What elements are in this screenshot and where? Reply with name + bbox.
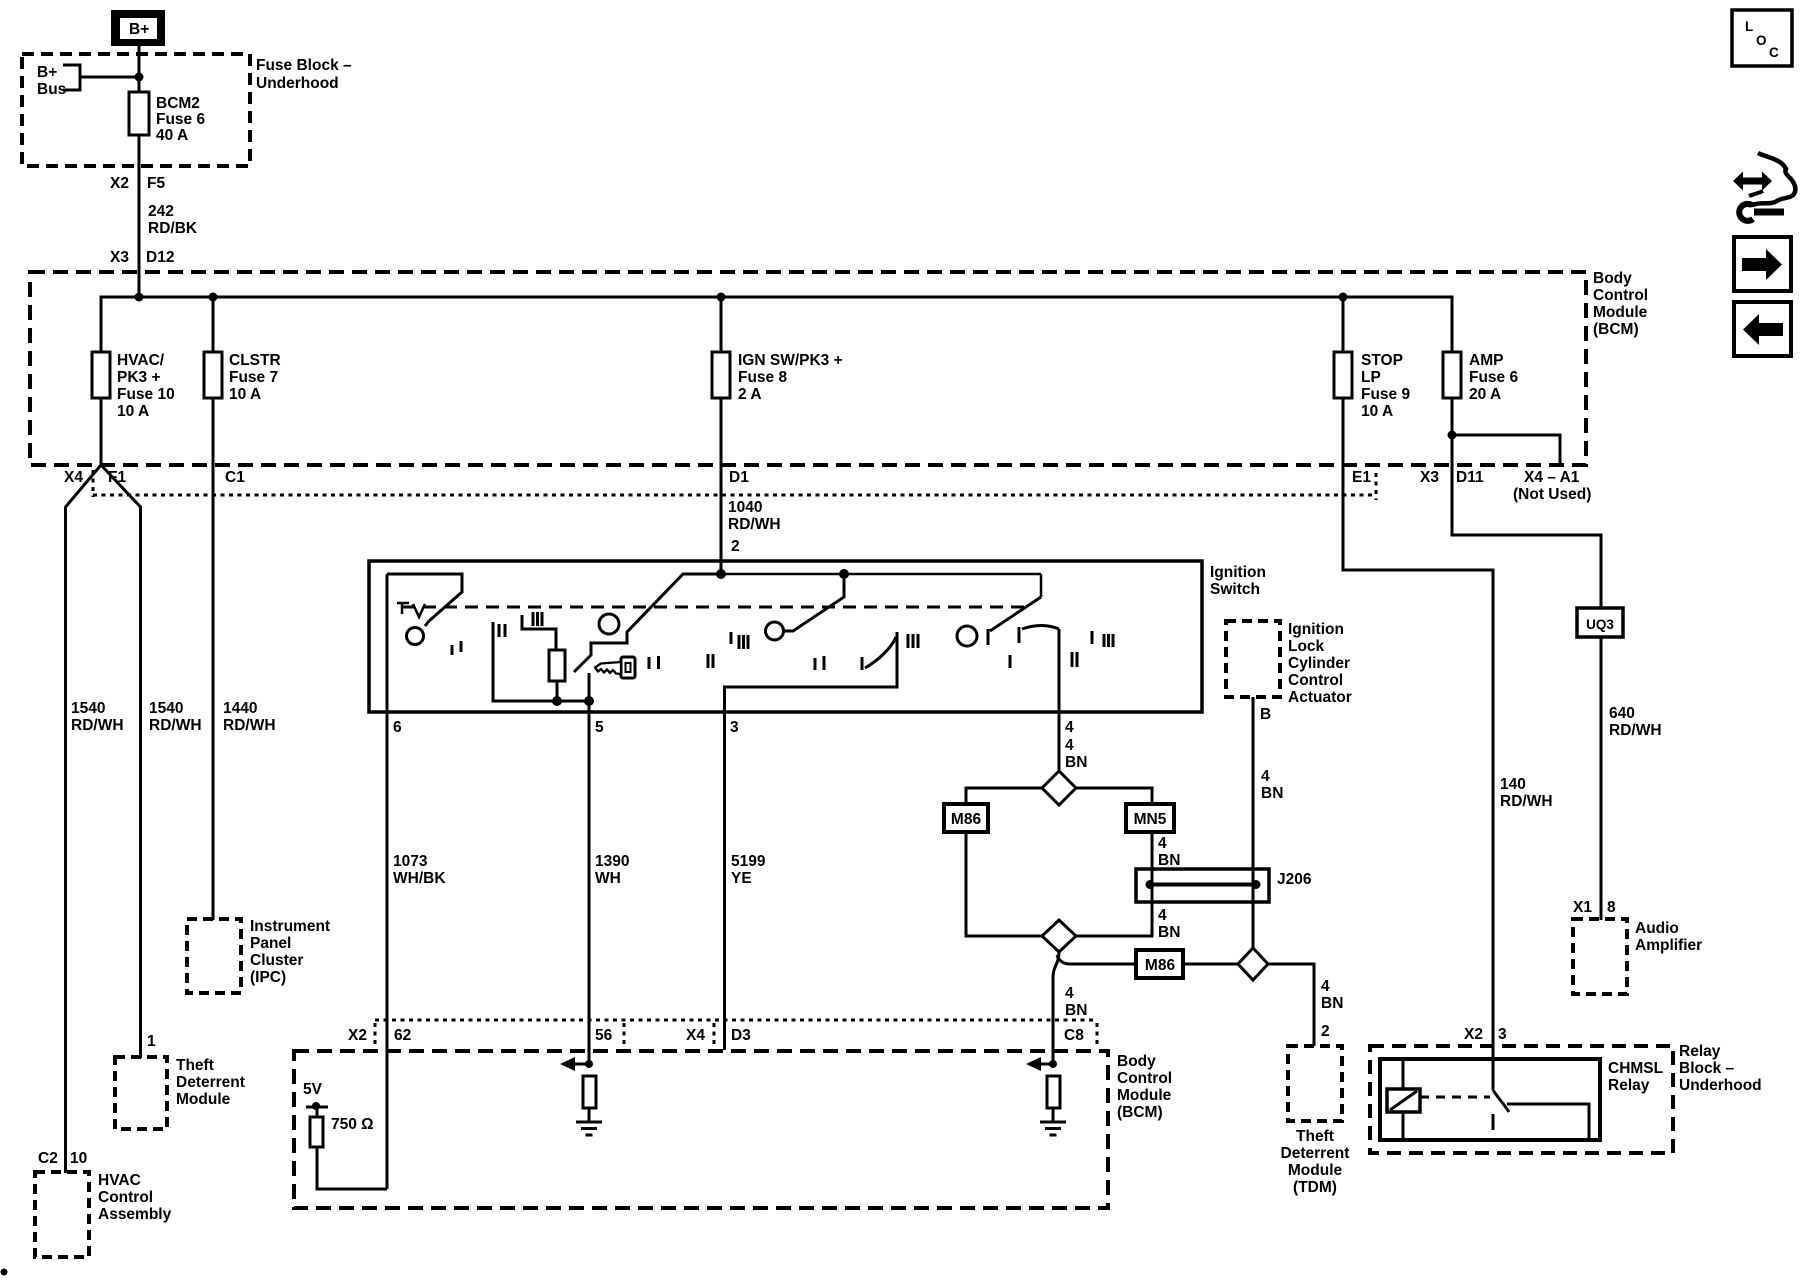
svg-text:2: 2: [1321, 1023, 1330, 1040]
svg-text:RD/WH: RD/WH: [728, 516, 781, 533]
svg-text:M86: M86: [951, 811, 982, 828]
svg-text:4: 4: [1158, 835, 1167, 852]
svg-text:3: 3: [730, 719, 739, 736]
svg-text:8: 8: [1607, 899, 1616, 916]
svg-text:HVAC: HVAC: [98, 1172, 141, 1189]
svg-text:CHMSL: CHMSL: [1608, 1060, 1663, 1077]
svg-text:20 A: 20 A: [1469, 386, 1501, 403]
svg-text:10 A: 10 A: [229, 386, 261, 403]
svg-text:D12: D12: [146, 249, 174, 266]
svg-text:D11: D11: [1456, 469, 1484, 486]
svg-text:D1: D1: [729, 469, 749, 486]
svg-text:RD/WH: RD/WH: [1500, 793, 1553, 810]
svg-text:Theft: Theft: [1296, 1128, 1334, 1145]
svg-text:STOP: STOP: [1361, 352, 1403, 369]
svg-text:5: 5: [595, 719, 604, 736]
svg-text:(TDM): (TDM): [1293, 1179, 1337, 1196]
svg-text:X2: X2: [110, 175, 129, 192]
svg-text:Bus: Bus: [37, 81, 66, 98]
svg-text:1540: 1540: [149, 700, 183, 717]
svg-text:Fuse 9: Fuse 9: [1361, 386, 1410, 403]
svg-text:BN: BN: [1065, 754, 1087, 771]
svg-text:4: 4: [1065, 985, 1074, 1002]
svg-text:3: 3: [1498, 1026, 1507, 1043]
svg-text:Module: Module: [1288, 1162, 1343, 1179]
svg-text:(BCM): (BCM): [1117, 1104, 1163, 1121]
svg-text:Control: Control: [1593, 287, 1648, 304]
svg-text:C8: C8: [1064, 1027, 1084, 1044]
svg-text:Module: Module: [1593, 304, 1648, 321]
svg-text:BN: BN: [1158, 924, 1180, 941]
svg-text:Body: Body: [1593, 270, 1632, 287]
svg-text:Fuse 7: Fuse 7: [229, 369, 278, 386]
svg-text:4: 4: [1321, 978, 1330, 995]
svg-text:2 A: 2 A: [738, 386, 762, 403]
svg-text:B: B: [1260, 706, 1271, 723]
svg-text:L: L: [1745, 19, 1753, 34]
svg-text:LP: LP: [1361, 369, 1381, 386]
svg-text:Assembly: Assembly: [98, 1206, 172, 1223]
svg-text:IGN SW/PK3 +: IGN SW/PK3 +: [738, 352, 843, 369]
svg-text:Deterrent: Deterrent: [1281, 1145, 1350, 1162]
svg-text:UQ3: UQ3: [1586, 617, 1614, 632]
svg-text:X4: X4: [64, 469, 83, 486]
svg-text:B+: B+: [37, 64, 57, 81]
svg-text:WH: WH: [595, 870, 621, 887]
svg-text:X4: X4: [686, 1027, 705, 1044]
svg-text:Module: Module: [1117, 1087, 1172, 1104]
svg-text:MN5: MN5: [1134, 811, 1167, 828]
svg-text:Underhood: Underhood: [1679, 1077, 1762, 1094]
svg-text:Switch: Switch: [1210, 581, 1260, 598]
svg-text:F5: F5: [147, 175, 165, 192]
svg-text:6: 6: [393, 719, 402, 736]
svg-text:5199: 5199: [731, 853, 766, 870]
svg-text:J206: J206: [1277, 871, 1312, 888]
svg-text:Relay: Relay: [1679, 1043, 1721, 1060]
svg-text:B+: B+: [129, 21, 149, 38]
svg-text:Module: Module: [176, 1091, 231, 1108]
svg-text:10: 10: [70, 1150, 87, 1167]
svg-text:WH/BK: WH/BK: [393, 870, 446, 887]
svg-text:1540: 1540: [71, 700, 105, 717]
svg-text:750 Ω: 750 Ω: [331, 1116, 374, 1133]
svg-text:YE: YE: [731, 870, 752, 887]
svg-text:M86: M86: [1145, 957, 1176, 974]
svg-text:140: 140: [1500, 776, 1526, 793]
svg-text:BN: BN: [1158, 852, 1180, 869]
svg-text:RD/WH: RD/WH: [223, 717, 276, 734]
svg-text:56: 56: [595, 1027, 613, 1044]
svg-text:Audio: Audio: [1635, 920, 1679, 937]
svg-text:Deterrent: Deterrent: [176, 1074, 245, 1091]
svg-text:X2: X2: [1464, 1026, 1483, 1043]
svg-text:Fuse 8: Fuse 8: [738, 369, 787, 386]
svg-text:Amplifier: Amplifier: [1635, 937, 1702, 954]
svg-text:CLSTR: CLSTR: [229, 352, 281, 369]
svg-text:Control: Control: [1288, 672, 1343, 689]
svg-text:Theft: Theft: [176, 1057, 214, 1074]
svg-text:C1: C1: [225, 469, 245, 486]
svg-text:Fuse 10: Fuse 10: [117, 386, 175, 403]
svg-text:4: 4: [1261, 768, 1270, 785]
svg-text:Fuse Block –: Fuse Block –: [256, 57, 352, 74]
svg-text:Ignition: Ignition: [1288, 621, 1344, 638]
svg-text:4: 4: [1065, 737, 1074, 754]
svg-text:X4 – A1: X4 – A1: [1524, 469, 1580, 486]
svg-text:1073: 1073: [393, 853, 428, 870]
svg-text:Instrument: Instrument: [250, 918, 330, 935]
svg-text:C2: C2: [38, 1150, 58, 1167]
svg-text:X3: X3: [1420, 469, 1439, 486]
svg-text:Lock: Lock: [1288, 638, 1325, 655]
svg-text:X3: X3: [110, 249, 129, 266]
svg-text:BCM2: BCM2: [156, 95, 200, 112]
svg-text:Body: Body: [1117, 1053, 1156, 1070]
svg-text:1390: 1390: [595, 853, 629, 870]
svg-text:40 A: 40 A: [156, 127, 188, 144]
svg-text:Fuse 6: Fuse 6: [1469, 369, 1518, 386]
svg-text:BN: BN: [1065, 1002, 1087, 1019]
svg-text:4: 4: [1158, 907, 1167, 924]
svg-text:RD/BK: RD/BK: [148, 220, 198, 237]
svg-text:RD/WH: RD/WH: [1609, 722, 1662, 739]
svg-text:Underhood: Underhood: [256, 75, 339, 92]
svg-text:C: C: [1769, 45, 1779, 60]
svg-text:62: 62: [394, 1027, 411, 1044]
svg-text:2: 2: [731, 538, 740, 555]
svg-text:(IPC): (IPC): [250, 969, 286, 986]
svg-text:10 A: 10 A: [1361, 403, 1393, 420]
svg-text:Panel: Panel: [250, 935, 291, 952]
svg-text:(Not Used): (Not Used): [1513, 486, 1591, 503]
svg-text:Fuse 6: Fuse 6: [156, 111, 205, 128]
svg-text:Relay: Relay: [1608, 1077, 1650, 1094]
svg-text:(BCM): (BCM): [1593, 321, 1639, 338]
svg-text:Cluster: Cluster: [250, 952, 303, 969]
svg-text:640: 640: [1609, 705, 1635, 722]
svg-text:1440: 1440: [223, 700, 257, 717]
svg-text:RD/WH: RD/WH: [71, 717, 124, 734]
svg-text:D3: D3: [731, 1027, 751, 1044]
svg-text:10 A: 10 A: [117, 403, 149, 420]
svg-text:AMP: AMP: [1469, 352, 1503, 369]
svg-text:Cylinder: Cylinder: [1288, 655, 1350, 672]
svg-text:242: 242: [148, 203, 174, 220]
svg-text:Actuator: Actuator: [1288, 689, 1352, 706]
svg-text:1: 1: [147, 1033, 156, 1050]
svg-text:X2: X2: [348, 1027, 367, 1044]
svg-text:BN: BN: [1261, 785, 1283, 802]
svg-text:Control: Control: [98, 1189, 153, 1206]
svg-text:BN: BN: [1321, 995, 1343, 1012]
svg-text:X1: X1: [1573, 899, 1592, 916]
svg-text:1040: 1040: [728, 499, 762, 516]
svg-text:RD/WH: RD/WH: [149, 717, 202, 734]
svg-text:Control: Control: [1117, 1070, 1172, 1087]
svg-text:Ignition: Ignition: [1210, 564, 1266, 581]
svg-text:5V: 5V: [303, 1081, 323, 1098]
svg-text:O: O: [1756, 33, 1767, 48]
svg-text:HVAC/: HVAC/: [117, 352, 165, 369]
svg-text:PK3 +: PK3 +: [117, 369, 161, 386]
svg-text:Block –: Block –: [1679, 1060, 1735, 1077]
svg-text:E1: E1: [1352, 469, 1371, 486]
